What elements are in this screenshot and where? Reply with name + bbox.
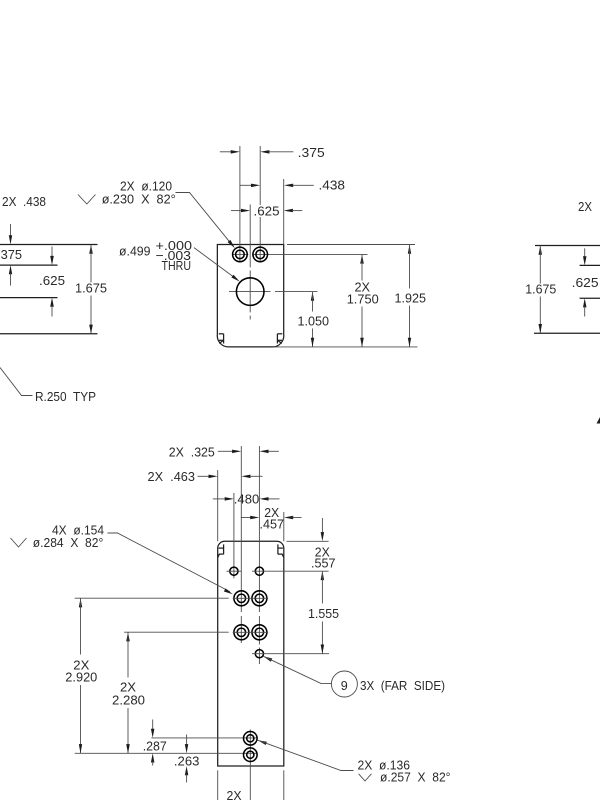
big hole center horizontal line: [229, 291, 271, 293]
counterbore hole C3 row2: [234, 625, 249, 640]
plain hole P2: [255, 567, 263, 575]
balloon 9 leader: [263, 656, 272, 662]
extension right edge above part: [283, 512, 285, 541]
extension below part left: [217, 770, 219, 800]
row2 horizontal extension left: [124, 631, 229, 633]
svg-text:R.250 TYP: R.250 TYP: [35, 389, 96, 404]
hole H1 counterbore circles: [233, 247, 248, 262]
svg-text:ø.499: ø.499: [119, 244, 151, 259]
dim .625 (right view): [584, 248, 586, 257]
part outline (top middle view): [217, 245, 284, 347]
part outline (bottom view): [218, 541, 284, 766]
svg-text:1.750: 1.750: [347, 292, 379, 307]
svg-text:.480: .480: [234, 491, 259, 506]
hole H2 centerline vertical: [259, 146, 261, 205]
dim .438 (top view): [240, 184, 252, 186]
plain hole P1: [230, 567, 238, 575]
extension left edge above part: [217, 470, 219, 541]
centerline x=259.4: [258, 446, 260, 612]
row1 horizontal extension left: [75, 597, 229, 599]
right view: bottom edge line: [534, 332, 600, 334]
svg-text:1.675: 1.675: [525, 282, 556, 297]
dim .263: [186, 735, 188, 745]
svg-text:2X: 2X: [227, 788, 242, 800]
big hole center vertical line: [249, 205, 251, 268]
dim .480: [213, 498, 226, 500]
extension line bottom edge to right: [273, 346, 418, 348]
svg-text:1.555: 1.555: [308, 606, 339, 621]
svg-text:9: 9: [341, 678, 348, 693]
dim .375 up arrow: [9, 265, 12, 274]
row1 crosshair horizontal: [233, 597, 269, 599]
leader to hole H1: [176, 193, 232, 245]
svg-text:.375: .375: [298, 145, 325, 160]
bottom hole A circles: [244, 732, 258, 746]
big hole circle O.499: [236, 278, 264, 306]
svg-text:.457: .457: [260, 516, 285, 531]
left view: edge line 3: [0, 297, 58, 299]
single hole S1 (far side): [255, 650, 263, 658]
hole H2 counterbore circles: [253, 247, 268, 262]
left view: top edge line: [0, 244, 98, 246]
svg-text:2.280: 2.280: [112, 692, 145, 707]
dim 1.555: [321, 571, 325, 580]
svg-text:.625: .625: [39, 273, 65, 288]
countersink symbol 3: [359, 774, 372, 781]
corner notch top-left (bottom view): [223, 544, 225, 554]
svg-text:THRU: THRU: [162, 258, 192, 273]
bottom hole B circles: [244, 748, 258, 762]
leader 4X holes: [108, 533, 230, 592]
clipped text mark at right edge: [597, 417, 600, 424]
svg-text:1.925: 1.925: [395, 291, 427, 306]
countersink symbol 2: [11, 538, 27, 547]
hole H1 centerline vertical: [239, 146, 241, 262]
corner notch bottom-right (top view): [277, 333, 282, 335]
svg-text:.263: .263: [174, 753, 200, 768]
dim .625 up arrow (left view): [50, 298, 54, 307]
corner notch bottom-left (top view): [219, 333, 224, 335]
right view: edge line 3: [580, 297, 600, 299]
single hole S1 crosshair + extension right: [252, 653, 329, 655]
plain hole P1 crosshair: [227, 570, 242, 572]
leader R.250 TYP: [0, 368, 33, 396]
leader 2X O.136: [258, 740, 267, 745]
right view: edge line 2: [580, 264, 600, 266]
corner notch top-right (bottom view): [277, 544, 279, 554]
centerline bottom holes x=250.3: [249, 730, 251, 800]
centerline x=233.9: [233, 493, 235, 578]
countersink symbol: [78, 195, 96, 205]
dim 1.675 (left view): [89, 245, 93, 254]
leader to big hole: [194, 248, 236, 279]
right view: top edge line: [535, 245, 600, 247]
balloon 9 circle: [331, 671, 357, 697]
svg-text:.625: .625: [254, 204, 280, 219]
left view: bottom edge line: [0, 333, 98, 335]
bottom hole B centerline horizontal: [75, 752, 258, 754]
svg-text:2X .463: 2X .463: [148, 469, 196, 484]
svg-text:ø.284 X 82°: ø.284 X 82°: [33, 535, 104, 550]
hole H1 centerline horizontal: [233, 253, 249, 255]
svg-text:.557: .557: [311, 555, 336, 570]
extension line top edge to right: [287, 244, 415, 246]
left view: edge line 2: [0, 264, 58, 266]
extension below part right: [283, 770, 285, 800]
dim 1.675 (right view): [539, 246, 543, 255]
svg-text:2.920: 2.920: [65, 669, 97, 684]
dim 1.925: [408, 245, 411, 254]
row2 crosshair horizontal: [233, 631, 269, 633]
svg-text:ø.257 X 82°: ø.257 X 82°: [380, 770, 451, 785]
bottom hole A centerline horizontal: [151, 737, 257, 739]
counterbore hole C1 row1: [234, 591, 249, 606]
hole H2 centerline horizontal + extension right: [252, 253, 367, 255]
dim 2X .438 down arrow: [10, 224, 12, 236]
dim 2X 1.750: [360, 254, 364, 263]
svg-text:.438: .438: [319, 178, 346, 193]
extension top edge right (bottom view): [287, 540, 329, 542]
dim 2X .457: [241, 517, 251, 519]
centerline x=241.3: [240, 446, 242, 612]
dim .625 down arrow (left view): [51, 247, 53, 257]
plain hole P2 crosshair + extension right: [252, 570, 329, 572]
counterbore hole C2 row1: [252, 591, 267, 606]
svg-text:1.675: 1.675: [75, 281, 107, 296]
svg-text:1.050: 1.050: [298, 314, 330, 329]
svg-text:3X (FAR SIDE): 3X (FAR SIDE): [360, 678, 445, 693]
svg-text:.625: .625: [572, 275, 599, 290]
dim .287: [152, 720, 154, 730]
svg-text:.375: .375: [0, 247, 22, 262]
svg-text:2X: 2X: [578, 199, 592, 214]
dim .625 (top view): [231, 210, 242, 212]
dim 2X 2.280: [126, 632, 130, 641]
dim .375 (top view): [220, 151, 232, 153]
svg-text:.287: .287: [143, 739, 167, 754]
extension line right edge above part: [283, 179, 285, 245]
dim 1.050: [311, 292, 314, 301]
dim 2X 2.920: [79, 598, 82, 607]
dim 2X .557: [321, 518, 323, 533]
svg-text:2X .438: 2X .438: [2, 194, 46, 209]
svg-text:ø.230 X 82°: ø.230 X 82°: [102, 191, 176, 206]
counterbore hole C4 row2: [252, 625, 267, 640]
svg-text:2X .325: 2X .325: [169, 444, 215, 459]
